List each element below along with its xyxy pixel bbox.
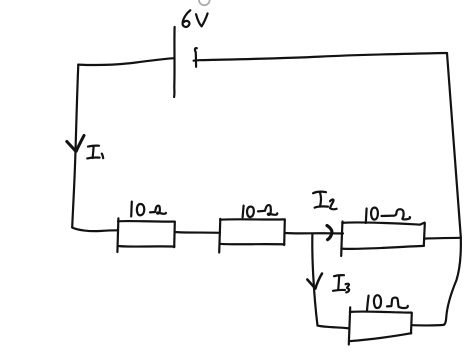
resistor R2 [219,219,285,253]
battery B1 negative plate [195,48,197,67]
label I1 [87,146,103,159]
battery label 6V [183,10,208,27]
label I2 [313,192,337,210]
resistor R3 [341,222,425,257]
wire branch vertical [312,234,317,325]
label R2 10ohm [243,205,278,217]
label R4 10ohm [367,295,408,311]
wire R3 to right [425,237,461,240]
wire R2 to junction [285,232,343,235]
arrow I1 [67,136,84,152]
stray mark [199,0,210,5]
wire top-left [78,58,174,65]
wire R1 to R2 [175,231,220,234]
wire right vertical [447,53,461,237]
resistor R1 [117,218,174,252]
label R3 10ohm [366,208,410,223]
wire battery to top-right [194,53,447,61]
arrow I3 [307,274,322,289]
arrow I2 [327,226,332,240]
wire right lower [444,239,461,325]
battery B1 positive plate [173,27,176,97]
wire bottom branch [317,326,349,329]
label R1 10ohm [131,202,166,217]
wire bottom-right [412,324,444,327]
wire left vertical [72,65,78,228]
label I3 [333,275,349,292]
wire bottom-left [72,228,118,232]
resistor R4 [349,307,412,344]
